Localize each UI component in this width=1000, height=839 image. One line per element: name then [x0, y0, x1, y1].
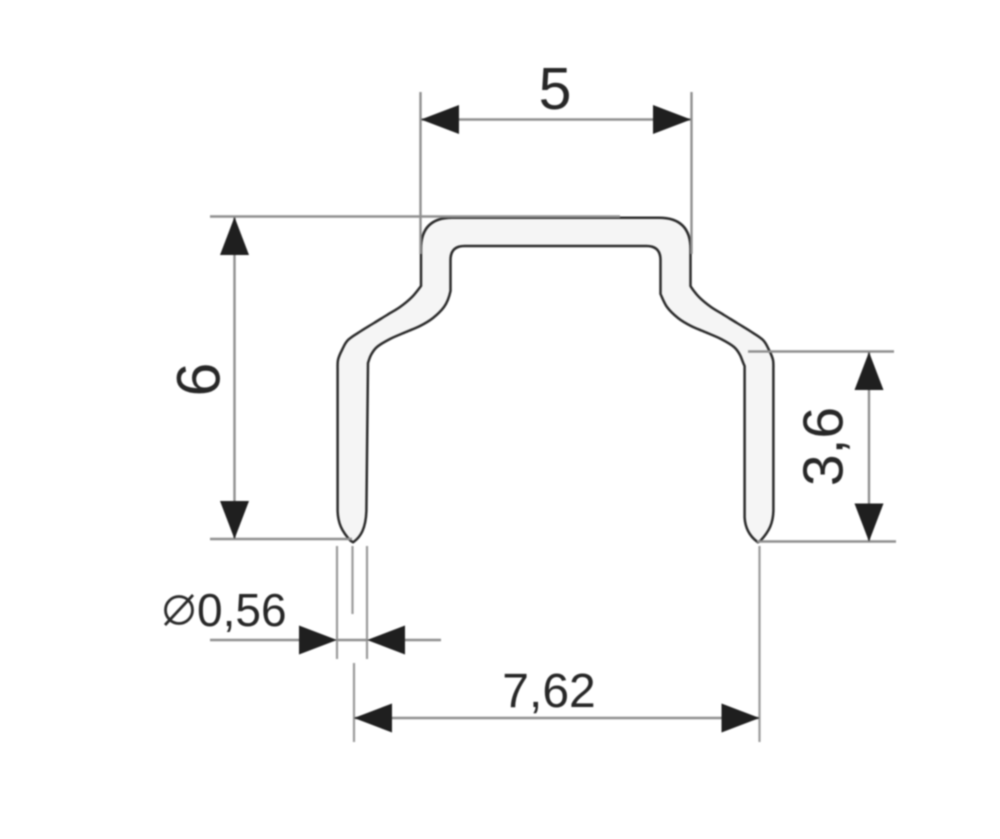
dim 0,56: right tail line: [404, 639, 441, 641]
dim 0,56: right arrowhead (points left): [367, 626, 405, 655]
dim 0,56: left arrowhead (points right): [299, 626, 337, 655]
dim 0,56: right tip-edge extension line: [366, 546, 368, 659]
dim 3,6: bottom arrowhead: [855, 504, 884, 542]
dim 0,56: line between tips: [337, 639, 367, 641]
wire bridge body (filled silhouette with outline): [338, 218, 774, 543]
dim 3,6: dimension line: [868, 352, 870, 542]
dim 5: right arrowhead: [653, 105, 691, 134]
dim 0,56: left tip-edge extension line: [336, 546, 338, 659]
dim 5: left extension line: [419, 92, 421, 254]
dim 5: left arrowhead: [421, 105, 459, 134]
dim 3,6: top extension line: [748, 350, 894, 352]
dim 7,62: left extension line: [353, 663, 355, 742]
dim 0,56: leg centerline stub: [351, 546, 353, 614]
dim 5: right extension line: [690, 92, 692, 254]
dim 0,56: left tail line: [210, 639, 300, 641]
svg-text:3,6: 3,6: [792, 407, 856, 486]
dim 7,62: dimension line: [354, 717, 759, 719]
svg-text:7,62: 7,62: [502, 665, 595, 718]
svg-text:6: 6: [165, 363, 233, 397]
dim 7,62: left arrowhead: [354, 704, 392, 733]
dim 6: top extension line: [210, 215, 620, 217]
svg-text:0,56: 0,56: [197, 584, 287, 636]
dim 6: bottom extension line: [210, 538, 352, 540]
dim 0,56: diameter symbol circle: [166, 597, 193, 624]
dim 6: dimension line: [233, 217, 235, 539]
dim 7,62: right arrowhead: [722, 704, 760, 733]
dim 6: bottom arrowhead: [220, 501, 249, 539]
dim 6: top arrowhead: [220, 217, 249, 255]
dim 3,6: top arrowhead: [855, 352, 884, 390]
dim 5: dimension line: [421, 118, 691, 120]
dim 3,6: bottom extension line: [757, 540, 896, 542]
svg-text:5: 5: [539, 56, 572, 122]
dim 0,56: diameter symbol slash: [165, 595, 193, 625]
dim 7,62: right extension line: [758, 546, 760, 742]
